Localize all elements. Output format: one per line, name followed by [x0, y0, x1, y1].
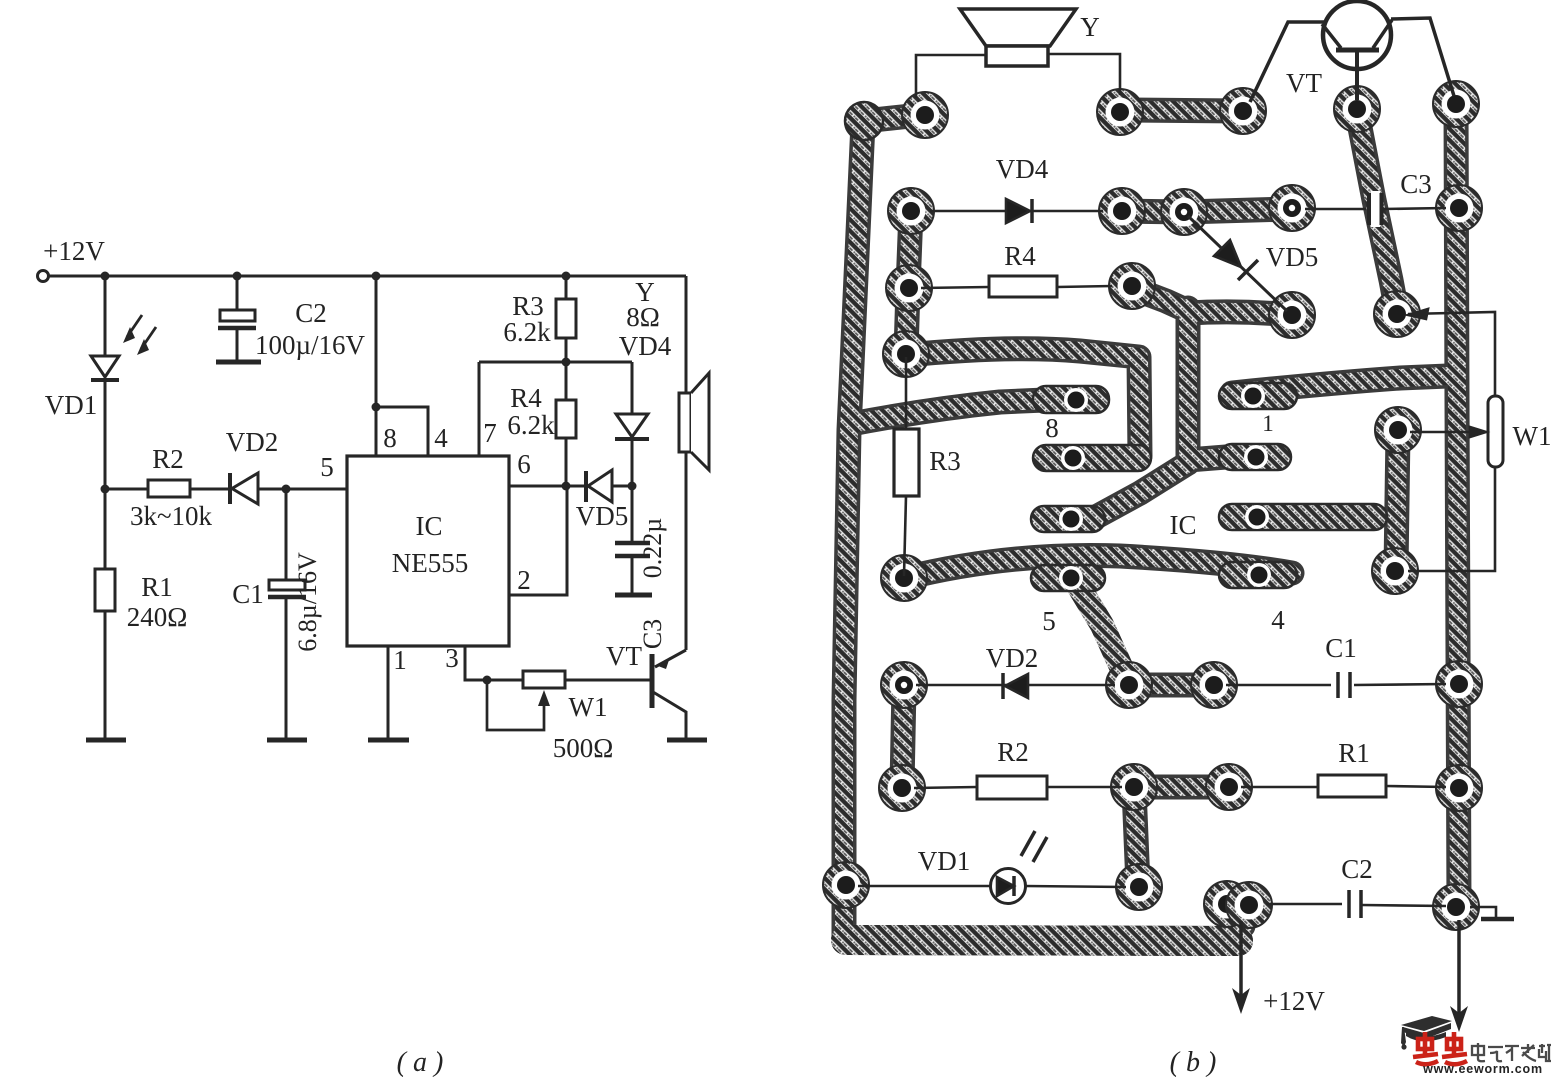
svg-text:4: 4 — [434, 423, 448, 453]
pad VD4 anode — [888, 188, 934, 234]
svg-text:8: 8 — [383, 423, 397, 453]
pad IC pin3 — [1245, 505, 1269, 529]
wire trace W1 pads vertical — [1396, 432, 1398, 569]
wire PCB left border trace — [844, 123, 863, 938]
svg-text:VD1: VD1 — [918, 846, 971, 876]
svg-text:VD5: VD5 — [576, 501, 629, 531]
wire trace pin5 bar to VD2 anode — [1076, 582, 1128, 682]
svg-text:R3: R3 — [929, 446, 961, 476]
potentiometer W1 — [523, 671, 565, 688]
wire trace pin7 net vertical VD4-R4-R3 — [906, 211, 911, 352]
pad VD1 right — [1116, 864, 1162, 910]
svg-text:C2: C2 — [1341, 854, 1373, 884]
capacitor C1 — [269, 580, 305, 590]
wire trace +12V band to pin8 bar — [851, 400, 1045, 424]
wire VT emitter lead — [1250, 22, 1324, 102]
+12V input terminal — [38, 271, 49, 282]
pad VT emitter — [1220, 88, 1266, 134]
wire speaker to VT emitter — [685, 452, 688, 650]
IC pin1 bar — [1219, 383, 1297, 409]
logo graduation cap — [1401, 1016, 1452, 1031]
ground VT — [667, 738, 707, 743]
resistor R3 leads — [905, 357, 908, 429]
svg-text:C1: C1 — [232, 579, 264, 609]
svg-text:+12V: +12V — [1263, 986, 1325, 1016]
diode VD5 symbol — [1214, 240, 1241, 267]
pad R2 right — [1111, 764, 1157, 810]
wire speaker Y left lead — [916, 55, 986, 98]
wire speaker Y right lead — [1048, 54, 1120, 95]
diode VD4 symbol — [1006, 199, 1030, 223]
svg-text:R1: R1 — [1338, 738, 1370, 768]
logo chinese site name — [1472, 1043, 1551, 1061]
svg-text:C3: C3 — [638, 619, 667, 649]
svg-text:VD5: VD5 — [1266, 242, 1319, 272]
svg-text:500Ω: 500Ω — [553, 733, 614, 763]
IC pin2 bar — [1219, 444, 1291, 470]
resistor R2 body — [977, 776, 1047, 799]
pad speaker left — [902, 92, 948, 138]
wire C3 top — [631, 486, 634, 541]
wire VT base lead — [1355, 52, 1359, 100]
pad R3 bottom — [881, 555, 927, 601]
wire trace R2 right to R1 left — [1134, 786, 1227, 788]
svg-text:R2: R2 — [152, 444, 184, 474]
svg-text:1: 1 — [1262, 411, 1274, 436]
wire C1 bottom — [285, 597, 288, 739]
svg-text:( b ): ( b ) — [1170, 1047, 1217, 1077]
IC pin7 bar — [1033, 445, 1151, 471]
pad W1 bottom — [1372, 548, 1418, 594]
node VD1/R1/R2 — [101, 485, 110, 494]
svg-text:W1: W1 — [569, 692, 608, 722]
wire +12V arrow — [1239, 921, 1243, 998]
photodiode VD1 — [91, 356, 119, 377]
pad VD2 anode — [1106, 662, 1152, 708]
wire pin4 bracket — [376, 407, 428, 456]
pad IC pin1 — [1241, 384, 1265, 408]
pad VT collector — [1433, 81, 1479, 127]
pad VD4 cathode — [1099, 188, 1145, 234]
wire ground arrow — [1457, 920, 1461, 1016]
pad IC pin7 — [1061, 446, 1085, 470]
photodiode VD1 body — [991, 869, 1026, 904]
wire trace speaker pad to VT emitter pad — [1122, 110, 1241, 111]
wire R2 to VD2 — [190, 488, 230, 491]
wire trace VT base pad down to W1 top pad — [1357, 112, 1397, 312]
wire trace +12V band R3 bottom to pin4 bar — [905, 555, 1292, 578]
wire trace VD2 anode to C1 left — [1129, 684, 1212, 686]
op-amp U1 IC NE555 box — [347, 456, 509, 646]
pad VT base net / W1 top — [1374, 291, 1420, 337]
resistor R2 — [148, 480, 190, 497]
svg-text:W1: W1 — [1513, 421, 1552, 451]
pad IC pin4 — [1247, 563, 1271, 587]
svg-text:6: 6 — [517, 449, 531, 479]
node pin3/wiper — [483, 676, 492, 685]
wire pin1 — [387, 646, 390, 739]
pad C3 right — [1436, 185, 1482, 231]
wire C1 top — [285, 489, 288, 580]
ground C3 — [615, 593, 652, 598]
svg-text:6.8µ/16V: 6.8µ/16V — [293, 552, 322, 652]
svg-text:1: 1 — [393, 645, 407, 675]
IC pin4 bar — [1219, 562, 1297, 588]
svg-text:8: 8 — [1045, 413, 1059, 443]
node pin7/R3/R4 — [562, 358, 571, 367]
IC pin5 bar — [1031, 565, 1105, 591]
wire R1 bottom — [104, 611, 107, 739]
wire rail to speaker — [685, 276, 688, 393]
svg-text:VD2: VD2 — [986, 643, 1039, 673]
wire R3 top — [565, 276, 568, 299]
resistor R4 — [556, 400, 576, 438]
photodiode VD1 light marks — [1021, 831, 1035, 856]
diode VD2 — [228, 473, 232, 504]
resistor R1 leads — [1241, 786, 1318, 789]
wire pin7 — [478, 362, 481, 456]
speaker Y — [679, 393, 691, 452]
wire W1 to VT base — [565, 679, 650, 682]
node rail-pin8 — [372, 272, 381, 281]
svg-text:R2: R2 — [997, 737, 1029, 767]
pad IC pin5 — [1059, 566, 1083, 590]
svg-text:www.eeworm.com: www.eeworm.com — [1422, 1062, 1543, 1076]
wire PCB right border trace — [1456, 106, 1459, 905]
ground C1 — [267, 738, 307, 743]
svg-text:NE555: NE555 — [392, 548, 469, 578]
node VD4/VD5/C3 — [628, 482, 637, 491]
transistor VT body — [1323, 1, 1391, 69]
wire trace R4 right to node A — [1132, 288, 1188, 311]
pad IC pin8 — [1064, 388, 1088, 412]
diode VD2 symbol — [1001, 673, 1005, 699]
wire pin2 — [509, 486, 567, 595]
resistor R3 — [556, 299, 576, 338]
IC pin8 bar — [1033, 386, 1109, 413]
pad +12V input double — [1204, 881, 1250, 927]
wire pin8 — [375, 276, 378, 456]
pad C2 right — [1433, 884, 1479, 930]
svg-text:8Ω: 8Ω — [626, 302, 660, 332]
svg-text:100µ/16V: 100µ/16V — [255, 330, 366, 360]
pad R4 left — [886, 265, 932, 311]
wire C2 bottom — [236, 328, 239, 361]
svg-text:VD1: VD1 — [45, 390, 98, 420]
ground pin1 — [368, 738, 409, 743]
svg-text:R1: R1 — [141, 572, 173, 602]
wire VD1 top — [104, 276, 107, 356]
wire trace pin7 hook — [907, 349, 1140, 456]
svg-text:VD4: VD4 — [619, 331, 672, 361]
svg-text:VD4: VD4 — [996, 154, 1049, 184]
node rail-R3 — [562, 272, 571, 281]
capacitor C2 plates — [1347, 890, 1351, 918]
svg-text:2: 2 — [517, 565, 531, 595]
svg-text:VT: VT — [606, 641, 642, 671]
node pin5/C1 — [282, 485, 291, 494]
pad VD1 left on border — [823, 862, 869, 908]
wire trace VD4 cathode / VD5 anode / C3 row — [1122, 209, 1290, 212]
svg-text:6.2k: 6.2k — [507, 410, 555, 440]
photodiode VD1 leads — [858, 885, 991, 888]
node pin8 bracket — [372, 403, 381, 412]
node rail-VD1 — [101, 272, 110, 281]
pad IC pin6 — [1059, 507, 1083, 531]
svg-text:( a ): ( a ) — [397, 1047, 444, 1077]
svg-text:IC: IC — [1170, 510, 1197, 540]
resistor R2 leads — [914, 787, 977, 788]
wire R3 bottom — [565, 338, 568, 362]
node pin6/R4 — [562, 482, 571, 491]
svg-text:IC: IC — [416, 511, 443, 541]
wire W1 wiper — [487, 680, 544, 730]
resistor R4 pcb body — [989, 276, 1057, 297]
svg-text:VT: VT — [1286, 68, 1322, 98]
diode VD5 lead — [1188, 216, 1287, 311]
wire R4 bottom — [565, 438, 568, 486]
svg-text:5: 5 — [1042, 606, 1056, 636]
wire trace node A to pin6 bar — [1096, 463, 1188, 517]
svg-text:6.2k: 6.2k — [503, 317, 551, 347]
pad R3 top — [883, 331, 929, 377]
svg-text:+12V: +12V — [43, 236, 105, 266]
resistor R1 body — [1318, 775, 1386, 797]
wire W1 top terminal to VT base pad — [1408, 312, 1495, 396]
capacitor C2 — [220, 310, 255, 321]
wire border corner to speaker pad — [864, 115, 920, 121]
capacitor C3 — [615, 541, 650, 546]
diode VD4 — [631, 362, 634, 414]
svg-text:4: 4 — [1271, 605, 1285, 635]
wire +12V rail — [49, 275, 686, 278]
wire trace node A horizontal — [1188, 312, 1290, 315]
wire trace node A vertical — [1187, 308, 1189, 463]
wire trace R2 right down to VD1 right — [1134, 789, 1138, 885]
wire VD1 to node — [104, 380, 107, 489]
wire trace +12V pad tail — [1241, 906, 1243, 926]
pad R2 left — [879, 765, 925, 811]
ground symbol PCB — [1470, 907, 1496, 918]
pad W1 wiper — [1375, 407, 1421, 453]
svg-text:5: 5 — [320, 452, 334, 482]
wire C3 bottom — [631, 556, 634, 593]
pad C3 left — [1269, 185, 1315, 231]
svg-text:240Ω: 240Ω — [127, 602, 188, 632]
diode VD5 — [566, 485, 586, 488]
svg-text:3k~10k: 3k~10k — [130, 501, 213, 531]
resistor R1 — [95, 569, 115, 611]
svg-text:VD2: VD2 — [226, 427, 279, 457]
wire W1 bottom terminal — [1408, 467, 1495, 571]
logo chongchong red characters — [1413, 1032, 1467, 1064]
pad R4 right — [1109, 263, 1155, 309]
pad R1 right — [1436, 765, 1482, 811]
wire trace pin1 bar to right border — [1232, 376, 1448, 393]
svg-text:R4: R4 — [1004, 241, 1036, 271]
wire VD2 to pin5 — [258, 488, 347, 491]
pad VD2 cathode — [881, 662, 927, 708]
ground C2 — [216, 360, 261, 365]
wire trace node A to pin2 bar — [1188, 457, 1226, 460]
resistor R3 body — [894, 429, 919, 496]
diode VD2 leads — [916, 684, 1115, 687]
pad VD5 cathode — [1269, 292, 1315, 338]
svg-text:C1: C1 — [1325, 633, 1357, 663]
wire pin7 row — [479, 361, 632, 364]
wire C2 top — [236, 276, 239, 310]
capacitor C2 leads — [1266, 903, 1342, 906]
potentiometer W1 body — [1488, 396, 1503, 467]
svg-text:7: 7 — [483, 418, 497, 448]
wire trace speckle layer — [844, 106, 1459, 941]
svg-text:Y: Y — [1080, 12, 1100, 42]
wire VT collector lead — [1391, 18, 1454, 96]
wire R4 top — [565, 362, 568, 400]
ground R1 — [86, 738, 126, 743]
wire to R2 — [105, 488, 148, 491]
junction border corner blob — [845, 102, 883, 140]
pad IC pin2 — [1244, 445, 1268, 469]
wire PCB bottom border trace — [846, 940, 1238, 941]
capacitor C3 plates — [1371, 191, 1381, 227]
wire W1 wiper arrow — [1410, 431, 1474, 434]
pad C1 left — [1191, 662, 1237, 708]
svg-text:3: 3 — [445, 643, 459, 673]
pad VT base — [1334, 86, 1380, 132]
pad R1 left — [1206, 764, 1252, 810]
IC pin3 bar — [1219, 504, 1387, 530]
svg-text:R4: R4 — [510, 383, 542, 413]
svg-text:C3: C3 — [1400, 169, 1432, 199]
IC pin6 bar — [1031, 506, 1105, 532]
wire pin3 — [465, 646, 523, 680]
wire R1 top — [104, 489, 107, 569]
pad speaker right — [1097, 89, 1143, 135]
capacitor C3 leads — [1305, 208, 1366, 211]
node rail-C2 — [233, 272, 242, 281]
transistor VT — [650, 654, 655, 708]
wire trace VD2 cathode to R2 left — [902, 687, 904, 786]
speaker Y cone — [960, 9, 1076, 46]
pad VD5 anode — [1161, 189, 1207, 235]
diode VD4 leads — [930, 210, 1103, 213]
pad C1 right — [1436, 661, 1482, 707]
wire pin6 — [509, 485, 566, 488]
capacitor C1 plates — [1336, 672, 1340, 698]
svg-text:0.22µ: 0.22µ — [638, 518, 667, 579]
capacitor C1 leads — [1226, 684, 1331, 687]
svg-text:C2: C2 — [295, 298, 327, 328]
wire trace outline layer — [844, 106, 1459, 941]
resistor R4 pcb leads — [921, 287, 989, 288]
